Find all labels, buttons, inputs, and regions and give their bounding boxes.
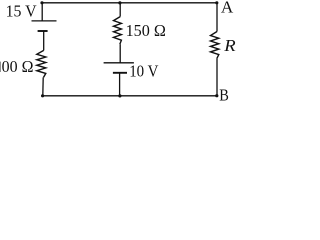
wire: bottom horizontal from left branch to node B <box>43 95 217 97</box>
wire: top horizontal from node at left branch to node A <box>42 2 217 4</box>
wire: left branch between 15V battery and 100 ohm resistor <box>43 31 45 50</box>
resistor R2 100 ohm zigzag <box>37 50 46 77</box>
label 100 ohm clipped digit sliver <box>0 62 2 72</box>
wire: middle branch between 150 ohm and 10V battery <box>119 44 121 63</box>
svg-text:R: R <box>223 36 236 55</box>
svg-text:15 V: 15 V <box>6 1 38 20</box>
junction node dot bottom-middle <box>118 94 121 97</box>
junction node dot bottom-left <box>41 94 44 97</box>
wire: right branch top segment (node A down to resistor R) <box>216 3 218 32</box>
wire: left branch top segment (top wire to 15V battery) <box>41 3 43 21</box>
svg-text:A: A <box>221 0 234 17</box>
junction node dot top-left <box>40 1 43 4</box>
resistor R zigzag <box>211 32 219 59</box>
wire: left branch bottom segment to bottom wire <box>42 77 44 95</box>
node B dot <box>215 94 218 97</box>
resistor R3 150 ohm zigzag <box>114 17 122 45</box>
wire: right branch bottom segment (resistor R down to node B) <box>216 59 218 96</box>
svg-text:150 Ω: 150 Ω <box>126 21 166 40</box>
wire: middle branch bottom segment <box>119 73 121 96</box>
junction node dot top-middle <box>118 1 121 4</box>
svg-text:100 Ω: 100 Ω <box>0 57 33 76</box>
battery V1 15V long plate <box>32 20 57 22</box>
svg-text:B: B <box>219 86 229 104</box>
battery V2 10V short plate <box>113 72 127 74</box>
wire: middle branch top segment <box>119 3 121 17</box>
battery V2 10V long plate <box>104 62 134 64</box>
node A dot <box>215 1 218 4</box>
svg-text:10 V: 10 V <box>129 62 159 81</box>
battery V1 15V short plate <box>38 30 48 32</box>
